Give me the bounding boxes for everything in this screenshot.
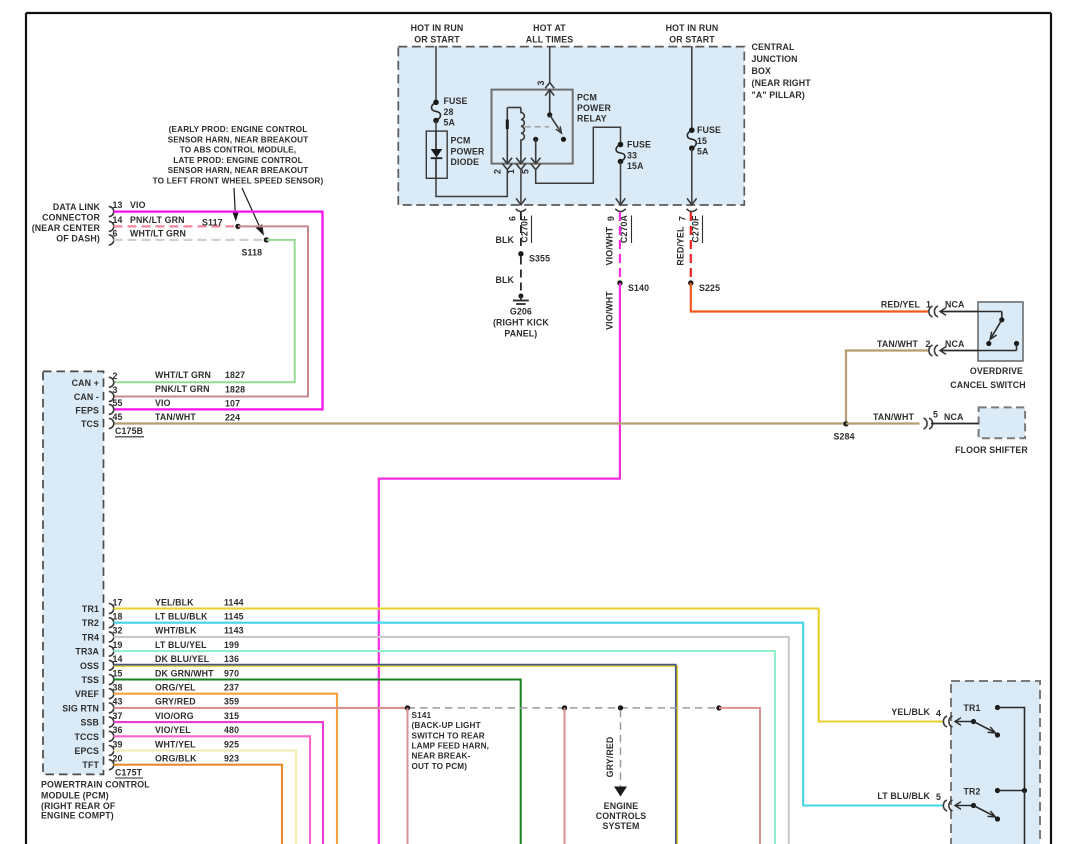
svg-text:TR2: TR2	[963, 787, 980, 797]
svg-text:(NEAR CENTER: (NEAR CENTER	[32, 223, 101, 233]
svg-text:PNK/LT GRN: PNK/LT GRN	[130, 215, 185, 225]
svg-text:5A: 5A	[444, 118, 456, 128]
svg-text:(EARLY PROD: ENGINE CONTROL: (EARLY PROD: ENGINE CONTROL	[169, 125, 308, 134]
wire DK GRN/WHT PCM-15	[114, 680, 521, 844]
svg-text:TCCS: TCCS	[74, 732, 99, 742]
connector C270A pin 9	[616, 198, 626, 205]
svg-text:5: 5	[933, 410, 938, 420]
svg-text:PCM: PCM	[451, 136, 471, 146]
svg-text:S117: S117	[202, 218, 223, 228]
wire WHT/LT GRN S118 to PCM-2	[114, 240, 295, 382]
wire TAN/WHT S284 to overdrive switch pin 2	[846, 351, 930, 422]
svg-text:TFT: TFT	[82, 760, 99, 770]
svg-text:OF DASH): OF DASH)	[56, 234, 100, 244]
DLC pin 6	[109, 235, 114, 245]
splice S118	[264, 237, 269, 242]
svg-text:CONTROLS: CONTROLS	[596, 811, 647, 821]
splice S140	[617, 280, 622, 285]
svg-text:FUSE: FUSE	[627, 140, 651, 150]
svg-text:PCM: PCM	[577, 93, 597, 103]
svg-text:TR1: TR1	[82, 604, 99, 614]
svg-text:MODULE (PCM): MODULE (PCM)	[41, 790, 109, 800]
svg-text:4: 4	[936, 709, 941, 719]
svg-text:NCA: NCA	[945, 339, 965, 349]
diode U1 PCM power diode	[426, 131, 447, 178]
wire PNK/LT GRN S117 to PCM-3	[114, 226, 309, 396]
svg-text:PANEL): PANEL)	[504, 329, 537, 339]
svg-text:LT BLU/YEL: LT BLU/YEL	[155, 640, 207, 650]
svg-text:VREF: VREF	[75, 689, 100, 699]
svg-text:SYSTEM: SYSTEM	[602, 821, 639, 831]
svg-text:EPCS: EPCS	[74, 746, 99, 756]
svg-text:LAMP FEED HARN,: LAMP FEED HARN,	[412, 742, 490, 751]
splice S355	[518, 251, 523, 256]
svg-text:480: 480	[224, 725, 239, 735]
svg-text:OSS: OSS	[80, 661, 99, 671]
svg-text:C175T: C175T	[115, 768, 143, 778]
overdrive cancel switch contacts	[978, 311, 1002, 313]
wire relay pin 5 to fuse 33	[536, 127, 621, 183]
svg-text:TR4: TR4	[82, 632, 99, 642]
svg-text:S284: S284	[834, 432, 855, 442]
svg-text:BLK: BLK	[495, 235, 514, 245]
floor shifter box	[979, 407, 1026, 438]
svg-text:28: 28	[444, 107, 454, 117]
svg-text:GRY/RED: GRY/RED	[605, 737, 615, 778]
svg-text:TR2: TR2	[82, 618, 99, 628]
wire TR1 common to TR2	[998, 708, 1025, 791]
svg-text:TCS: TCS	[81, 419, 99, 429]
svg-text:2: 2	[493, 169, 503, 174]
svg-text:6: 6	[113, 229, 118, 239]
svg-text:YEL/BLK: YEL/BLK	[155, 597, 194, 607]
svg-text:HOT IN RUN: HOT IN RUN	[666, 23, 719, 33]
wire VIO/ORG PCM-37	[114, 722, 324, 844]
wire ORG/BLK PCM-20	[114, 765, 283, 844]
connector TR2 pin 5	[943, 800, 947, 811]
wire RED/YEL S225 to overdrive cancel switch	[691, 283, 930, 312]
svg-text:6: 6	[508, 216, 518, 221]
svg-text:ALL TIMES: ALL TIMES	[526, 35, 574, 45]
wire GRY/RED PCM-43 to S141	[114, 707, 408, 709]
wire feed to fuse 15	[691, 46, 693, 130]
svg-text:TAN/WHT: TAN/WHT	[873, 412, 914, 422]
svg-text:2: 2	[113, 371, 118, 381]
svg-text:SENSOR HARN, NEAR BREAKOUT: SENSOR HARN, NEAR BREAKOUT	[168, 135, 309, 144]
wire fuse 15 to C270F	[691, 148, 693, 204]
transmission range sensor box	[951, 681, 1040, 844]
svg-text:NCA: NCA	[944, 412, 964, 422]
svg-text:VIO: VIO	[155, 398, 171, 408]
svg-text:POWERTRAIN CONTROL: POWERTRAIN CONTROL	[41, 780, 150, 790]
svg-text:FUSE: FUSE	[697, 125, 721, 135]
wire LT BLU/BLK PCM-18 to TR2	[114, 623, 945, 806]
wire LT BLU/YEL PCM-19	[114, 651, 776, 844]
svg-text:POWER: POWER	[577, 103, 611, 113]
svg-text:RED/YEL: RED/YEL	[676, 226, 686, 266]
svg-text:FEPS: FEPS	[75, 406, 99, 416]
wire GRY/RED to engine controls system	[620, 710, 622, 787]
svg-text:5A: 5A	[697, 147, 709, 157]
central junction box	[398, 47, 744, 205]
svg-text:18: 18	[113, 612, 123, 622]
svg-text:15: 15	[697, 136, 707, 146]
svg-text:S140: S140	[628, 283, 649, 293]
svg-text:43: 43	[113, 697, 123, 707]
svg-text:SIG RTN: SIG RTN	[62, 703, 99, 713]
svg-text:CAN +: CAN +	[72, 378, 99, 388]
TR1 switch	[956, 721, 974, 723]
wire branch at 564	[564, 708, 566, 844]
svg-text:136: 136	[224, 654, 239, 664]
svg-text:HOT AT: HOT AT	[533, 23, 566, 33]
svg-text:VIO/YEL: VIO/YEL	[155, 725, 191, 735]
svg-text:JUNCTION: JUNCTION	[752, 54, 798, 64]
svg-text:TR1: TR1	[963, 703, 980, 713]
svg-text:OR START: OR START	[414, 35, 460, 45]
svg-text:BLK: BLK	[495, 275, 514, 285]
svg-text:970: 970	[224, 668, 239, 678]
svg-text:HOT IN RUN: HOT IN RUN	[411, 23, 464, 33]
svg-text:315: 315	[224, 711, 239, 721]
svg-text:359: 359	[224, 697, 239, 707]
svg-text:PNK/LT GRN: PNK/LT GRN	[155, 384, 210, 394]
svg-text:32: 32	[113, 626, 123, 636]
fuse 33 15A	[616, 145, 625, 162]
svg-text:LT BLU/BLK: LT BLU/BLK	[877, 791, 930, 801]
svg-text:SWITCH TO REAR: SWITCH TO REAR	[412, 731, 485, 740]
svg-text:ORG/YEL: ORG/YEL	[155, 683, 196, 693]
wire fuse 28 to diode	[435, 121, 437, 132]
fuse 28 5A	[432, 102, 441, 120]
DLC pin 13	[109, 207, 114, 217]
relay coil	[506, 108, 508, 164]
svg-text:DIODE: DIODE	[451, 157, 480, 167]
junction at end of bus	[716, 705, 721, 710]
svg-text:NCA: NCA	[945, 300, 965, 310]
svg-text:ORG/BLK: ORG/BLK	[155, 754, 197, 764]
svg-text:FLOOR SHIFTER: FLOOR SHIFTER	[955, 445, 1028, 455]
svg-text:NEAR BREAK-: NEAR BREAK-	[412, 752, 471, 761]
svg-text:BOX: BOX	[752, 66, 772, 76]
svg-text:DK BLU/YEL: DK BLU/YEL	[155, 654, 210, 664]
svg-text:RELAY: RELAY	[577, 114, 607, 124]
svg-text:TAN/WHT: TAN/WHT	[155, 412, 196, 422]
svg-text:S355: S355	[529, 254, 550, 264]
junction on bus	[562, 705, 567, 710]
svg-text:FUSE: FUSE	[444, 96, 468, 106]
svg-text:33: 33	[627, 151, 637, 161]
fuse 15 5A	[687, 130, 696, 148]
wire WHT/BLK PCM-32	[114, 637, 789, 844]
svg-text:19: 19	[113, 640, 123, 650]
wire TR bus down	[1024, 791, 1026, 844]
svg-text:POWER: POWER	[451, 147, 485, 157]
svg-text:OVERDRIVE: OVERDRIVE	[970, 366, 1023, 376]
pin 5 contact	[533, 137, 538, 142]
svg-text:3: 3	[536, 80, 546, 85]
svg-text:7: 7	[678, 216, 688, 221]
svg-text:LT BLU/BLK: LT BLU/BLK	[155, 612, 208, 622]
relay switch	[547, 112, 552, 117]
svg-text:VIO/WHT: VIO/WHT	[605, 226, 615, 265]
svg-text:CONNECTOR: CONNECTOR	[42, 213, 100, 223]
svg-text:YEL/BLK: YEL/BLK	[891, 707, 930, 717]
svg-text:3: 3	[113, 385, 118, 395]
svg-text:38: 38	[113, 683, 123, 693]
svg-text:CANCEL SWITCH: CANCEL SWITCH	[950, 380, 1026, 390]
svg-text:WHT/LT GRN: WHT/LT GRN	[155, 370, 211, 380]
svg-text:1145: 1145	[224, 612, 244, 622]
svg-text:TR3A: TR3A	[75, 647, 99, 657]
wire DK BLU/YEL PCM-14	[114, 666, 678, 844]
svg-text:1144: 1144	[224, 597, 244, 607]
svg-text:17: 17	[113, 597, 123, 607]
svg-text:(RIGHT REAR OF: (RIGHT REAR OF	[41, 801, 116, 811]
svg-text:(RIGHT KICK: (RIGHT KICK	[493, 318, 549, 328]
svg-text:LATE PROD: ENGINE CONTROL: LATE PROD: ENGINE CONTROL	[173, 156, 303, 165]
svg-text:ENGINE COMPT): ENGINE COMPT)	[41, 811, 114, 821]
svg-text:925: 925	[224, 739, 239, 749]
svg-text:15A: 15A	[627, 161, 644, 171]
wire TAN/WHT S284 to floor shifter pin 5	[846, 422, 920, 424]
svg-text:14: 14	[113, 654, 123, 664]
wire fuse 33 to C270A	[620, 162, 622, 205]
junction GRY/RED drop	[618, 705, 623, 710]
splice S284	[843, 421, 848, 426]
connector pin 5 NCA	[924, 418, 928, 429]
svg-text:55: 55	[113, 398, 123, 408]
svg-text:S141: S141	[412, 711, 432, 720]
svg-text:RED/YEL: RED/YEL	[881, 300, 921, 310]
svg-text:1828: 1828	[225, 384, 245, 394]
svg-text:GRY/RED: GRY/RED	[155, 697, 196, 707]
arrow to S117	[234, 188, 236, 218]
svg-text:WHT/LT GRN: WHT/LT GRN	[130, 229, 186, 239]
svg-text:CAN -: CAN -	[74, 392, 99, 402]
svg-text:C175B: C175B	[115, 426, 143, 436]
wire ORG/YEL PCM-38	[114, 694, 338, 844]
svg-text:36: 36	[113, 725, 123, 735]
svg-text:VIO/WHT: VIO/WHT	[605, 291, 615, 330]
connector pin 1 NCA	[929, 306, 933, 317]
svg-text:14: 14	[113, 215, 123, 225]
svg-text:224: 224	[225, 413, 240, 423]
wire YEL/BLK PCM-17 to TR1	[114, 609, 945, 722]
TR2 switch	[956, 805, 974, 807]
wire TAN/WHT PCM pin 45 to S284	[113, 422, 846, 424]
wire feed to relay pin 3	[549, 46, 551, 83]
svg-text:DATA LINK: DATA LINK	[53, 202, 101, 212]
svg-text:TO ABS CONTROL MODULE,: TO ABS CONTROL MODULE,	[180, 146, 296, 155]
wire diode to relay pin 2	[436, 170, 507, 197]
wire VIO/YEL PCM-36	[114, 736, 311, 844]
junction TR bus	[1022, 788, 1027, 793]
wire branch at 719	[719, 708, 760, 844]
svg-text:TAN/WHT: TAN/WHT	[877, 339, 918, 349]
svg-text:15: 15	[113, 668, 123, 678]
svg-text:TSS: TSS	[81, 675, 99, 685]
svg-text:(NEAR RIGHT: (NEAR RIGHT	[752, 78, 812, 88]
svg-text:1827: 1827	[225, 370, 245, 380]
svg-text:G206: G206	[510, 307, 532, 317]
overdrive cancel switch box	[978, 302, 1023, 361]
wire feed to fuse 28	[435, 46, 437, 102]
ground G206	[518, 294, 523, 299]
svg-text:237: 237	[224, 683, 239, 693]
svg-text:ENGINE: ENGINE	[604, 801, 639, 811]
svg-text:WHT/BLK: WHT/BLK	[155, 626, 197, 636]
svg-text:107: 107	[225, 399, 240, 409]
arrow to S118	[242, 188, 262, 231]
svg-text:DK GRN/WHT: DK GRN/WHT	[155, 668, 214, 678]
svg-text:C270F: C270F	[691, 215, 701, 243]
svg-text:1143: 1143	[224, 626, 244, 636]
connector C270F pin 6	[516, 198, 526, 205]
splice S141	[405, 705, 410, 710]
svg-text:13: 13	[113, 200, 123, 210]
svg-text:37: 37	[113, 711, 123, 721]
svg-text:OR START: OR START	[669, 35, 715, 45]
svg-text:20: 20	[113, 754, 123, 764]
svg-text:9: 9	[606, 216, 616, 221]
svg-text:WHT/YEL: WHT/YEL	[155, 739, 196, 749]
svg-text:CENTRAL: CENTRAL	[752, 42, 796, 52]
relay K1 PCM power relay box	[492, 90, 573, 164]
svg-text:923: 923	[224, 754, 239, 764]
connector C270F pin 7	[687, 198, 697, 205]
svg-text:5: 5	[521, 169, 531, 174]
svg-text:VIO: VIO	[130, 200, 146, 210]
connector TR1 pin 4	[943, 716, 947, 727]
svg-text:"A" PILLAR): "A" PILLAR)	[752, 90, 805, 100]
wire WHT/YEL PCM-39	[114, 751, 297, 844]
svg-text:39: 39	[113, 739, 123, 749]
PCM connector box (C175B/C175T)	[43, 371, 104, 774]
svg-text:S225: S225	[699, 283, 720, 293]
svg-text:TO LEFT FRONT WHEEL SPEED SENS: TO LEFT FRONT WHEEL SPEED SENSOR)	[153, 177, 324, 186]
wire branch below S141	[407, 708, 409, 844]
svg-text:199: 199	[224, 640, 239, 650]
svg-text:SSB: SSB	[80, 718, 99, 728]
svg-text:(BACK-UP LIGHT: (BACK-UP LIGHT	[412, 721, 481, 730]
svg-text:OUT TO PCM): OUT TO PCM)	[412, 762, 468, 771]
svg-text:VIO/ORG: VIO/ORG	[155, 711, 194, 721]
wire dashed S141 bus	[408, 707, 720, 709]
DLC pin 14	[109, 221, 114, 231]
splice S225	[688, 280, 693, 285]
svg-text:45: 45	[113, 412, 123, 422]
svg-text:5: 5	[936, 792, 941, 802]
svg-text:S118: S118	[242, 248, 263, 258]
connector pin 2 NCA	[929, 345, 933, 356]
wire relay pin 1 to C270F	[520, 170, 522, 205]
svg-text:SENSOR HARN, NEAR BREAKOUT: SENSOR HARN, NEAR BREAKOUT	[168, 166, 309, 175]
